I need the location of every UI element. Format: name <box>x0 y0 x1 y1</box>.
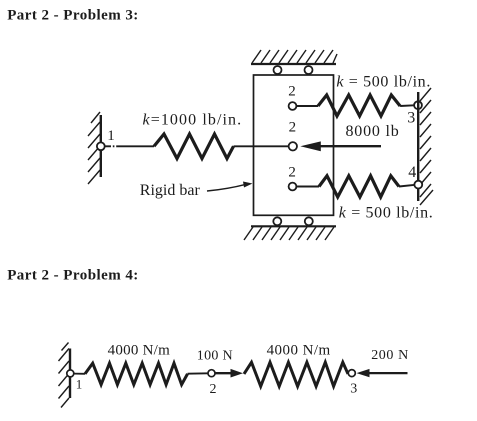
svg-text:1: 1 <box>107 128 115 144</box>
ceiling support <box>251 50 337 64</box>
wire spring to node 2 P4 <box>188 372 209 374</box>
spring k=500 top <box>318 95 400 116</box>
svg-text:2: 2 <box>288 84 296 100</box>
wall P4 <box>59 343 71 408</box>
svg-text:k = 500 lb/in.: k = 500 lb/in. <box>336 73 431 90</box>
roller top-right <box>305 66 313 74</box>
node 2 bottom <box>289 183 297 191</box>
svg-text:2: 2 <box>288 165 296 181</box>
force arrow 8000 lb <box>300 141 381 151</box>
svg-text:4000 N/m: 4000 N/m <box>108 343 171 359</box>
svg-text:2: 2 <box>289 120 297 136</box>
svg-text:4: 4 <box>408 164 416 181</box>
right wall <box>418 88 433 205</box>
node 1 P4 <box>67 370 74 377</box>
wire spring to node 3 <box>400 104 414 107</box>
spring 4000 N/m right <box>244 362 348 386</box>
roller bottom-left <box>273 217 281 225</box>
spring k=1000 lb/in <box>154 134 234 159</box>
rigid bar <box>254 75 334 215</box>
svg-text:Part 2 - Problem 4:: Part 2 - Problem 4: <box>7 268 139 284</box>
svg-text:1: 1 <box>76 377 83 392</box>
force arrow 100 N <box>216 369 244 378</box>
node 2 middle <box>289 142 297 150</box>
node 1 <box>97 142 105 150</box>
wire spring to node 2 middle <box>234 145 289 147</box>
node 3 P4 <box>348 370 355 377</box>
node 2 P4 <box>208 370 215 377</box>
spring k=500 bottom <box>319 176 399 197</box>
svg-text:k = 500 lb/in.: k = 500 lb/in. <box>339 205 434 222</box>
force arrow 200 N <box>357 369 408 377</box>
wire node1 to spring P4 <box>74 373 85 375</box>
svg-text:100 N: 100 N <box>197 349 233 364</box>
roller top-left <box>274 66 282 74</box>
svg-text:k=1000 lb/in.: k=1000 lb/in. <box>143 112 243 129</box>
spring 4000 N/m left <box>85 363 188 384</box>
svg-text:8000 lb: 8000 lb <box>346 123 400 140</box>
node 2 top <box>289 102 297 110</box>
node 3 <box>414 101 422 109</box>
rigid bar pointer arrow <box>207 182 253 192</box>
svg-text:3: 3 <box>407 110 415 127</box>
svg-text:Part 2 - Problem 3:: Part 2 - Problem 3: <box>7 7 139 23</box>
svg-text:4000 N/m: 4000 N/m <box>267 343 331 359</box>
node 4 <box>414 181 422 189</box>
svg-text:2: 2 <box>210 382 217 397</box>
svg-text:3: 3 <box>350 382 357 397</box>
floor support <box>244 226 336 240</box>
wire spring to node 4 <box>399 185 414 187</box>
svg-text:200 N: 200 N <box>371 348 409 363</box>
roller bottom-right <box>305 217 313 225</box>
wire node2bottom to spring <box>297 186 319 188</box>
svg-text:Rigid bar: Rigid bar <box>140 182 201 199</box>
wire node2top to spring <box>297 105 318 107</box>
left wall <box>88 112 101 184</box>
wire node1 to spring <box>105 145 111 147</box>
